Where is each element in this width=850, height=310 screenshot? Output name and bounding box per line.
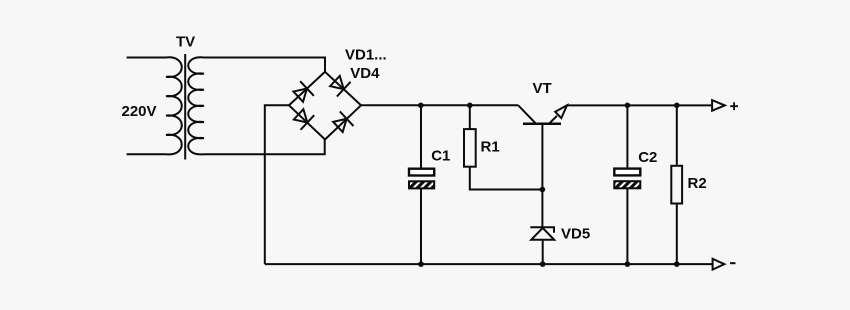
- diode VD4 bottom-right: [331, 111, 353, 134]
- resistor R1 wire top: [469, 105, 471, 129]
- junction node base/zener: [540, 187, 546, 193]
- svg-text:C1: C1: [431, 147, 450, 164]
- bridge diamond: [289, 72, 361, 140]
- wire secondary top to bridge: [204, 58, 325, 72]
- junction node R2 bottom: [674, 261, 680, 267]
- transistor VT emitter arrow: [555, 105, 567, 118]
- wire primary bottom lead: [127, 153, 166, 155]
- diode VD2 top-right: [328, 74, 350, 97]
- minus terminal arrow: [713, 259, 725, 270]
- svg-text:R2: R2: [688, 175, 707, 192]
- transformer core: [184, 54, 186, 160]
- plus sign: [730, 102, 738, 110]
- junction node zener bottom: [540, 261, 546, 267]
- transformer TV primary winding: [166, 57, 182, 154]
- resistor R1 wire bottom to base node: [470, 167, 543, 190]
- zener VD5 wire bottom: [542, 240, 544, 264]
- junction node C1 top: [418, 103, 424, 109]
- plus terminal arrow: [712, 100, 725, 111]
- junction node C1 bottom: [418, 261, 424, 267]
- capacitor C1 negative plate: [409, 181, 434, 188]
- transformer TV secondary winding: [188, 57, 204, 154]
- svg-text:R1: R1: [481, 139, 500, 156]
- wire bottom rail: [265, 263, 713, 265]
- zener VD5 cathode bar with flag: [530, 227, 554, 233]
- minus sign: [730, 262, 736, 264]
- transistor VT base lead: [541, 124, 543, 190]
- svg-text:VD4: VD4: [350, 65, 380, 82]
- capacitor C2 wire top: [626, 105, 628, 168]
- capacitor C2 wire bottom: [626, 188, 628, 264]
- wire emitter to plus terminal: [567, 104, 712, 106]
- zener VD5 wire top: [541, 190, 543, 228]
- junction node R2 top: [674, 103, 680, 109]
- transistor VT emitter lead: [550, 116, 558, 123]
- diode VD1 top-left: [291, 81, 313, 104]
- junction node C2 bottom: [625, 261, 631, 267]
- wire bridge plus to transistor: [361, 104, 518, 106]
- svg-text:VD1...: VD1...: [345, 46, 387, 63]
- wire bridge minus to bottom rail: [265, 105, 289, 264]
- junction node R1 top: [467, 103, 473, 109]
- zener VD5 triangle: [531, 228, 554, 240]
- resistor R2 wire top: [676, 105, 678, 166]
- svg-text:VD5: VD5: [561, 225, 590, 242]
- transistor VT base bar: [523, 123, 561, 126]
- svg-text:220V: 220V: [122, 103, 157, 120]
- capacitor C1 positive plate: [409, 169, 434, 176]
- wire primary top lead: [127, 57, 166, 59]
- capacitor C1 wire bottom: [420, 188, 422, 264]
- svg-text:VT: VT: [533, 80, 552, 97]
- capacitor C2 positive plate: [614, 169, 640, 176]
- resistor R2 body: [671, 166, 682, 204]
- capacitor C2 negative plate: [614, 181, 640, 188]
- diode VD3 bottom-left: [292, 107, 314, 130]
- transistor VT collector lead: [518, 105, 535, 123]
- resistor R2 wire bottom: [676, 204, 678, 265]
- resistor R1 body: [464, 129, 476, 167]
- junction node C2 top: [625, 103, 631, 109]
- capacitor C1 wire top: [420, 105, 422, 168]
- svg-text:C2: C2: [638, 149, 657, 166]
- wire secondary bottom to bridge: [204, 140, 325, 155]
- svg-text:TV: TV: [176, 34, 195, 51]
